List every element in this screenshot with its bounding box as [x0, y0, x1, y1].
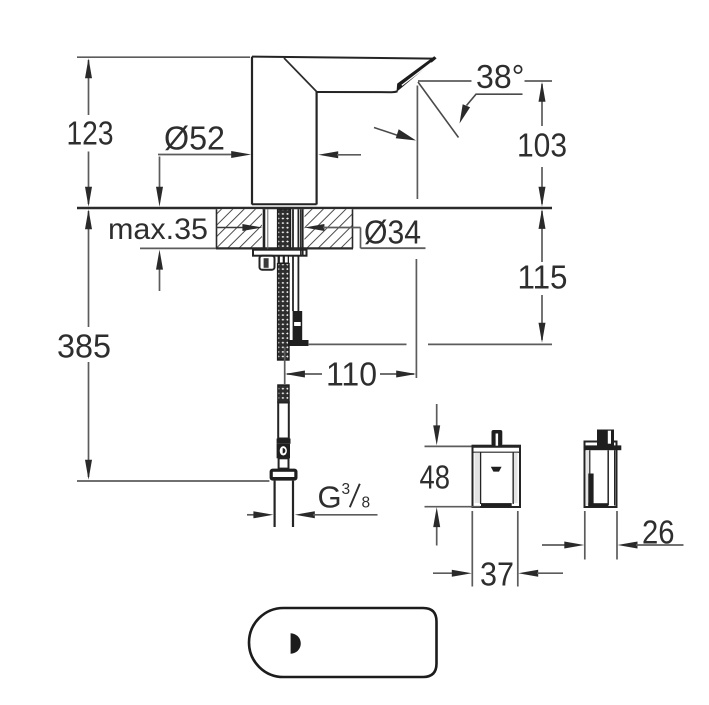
38° arc leader with arrow [467, 94, 523, 105]
dimension Ø34 arrows [216, 227, 244, 229]
dimension 123 line [88, 60, 90, 115]
side box clip [597, 430, 614, 446]
connection nut G3/8 [270, 469, 298, 481]
spout face angle extension line [418, 82, 459, 138]
dimension 48 [425, 445, 472, 447]
sensor cable lines through shank [292, 209, 294, 311]
faucet base bottom edge [252, 203, 317, 205]
svg-text:8: 8 [362, 495, 371, 512]
svg-text:48: 48 [420, 459, 451, 496]
faucet body top edge [252, 57, 434, 59]
svg-text:26: 26 [642, 514, 675, 551]
hose connector body [277, 444, 290, 459]
counter slab left edge [216, 209, 218, 248]
svg-text:385: 385 [57, 328, 111, 365]
dimension Ø52 leader [158, 154, 232, 156]
counter slab bottom edge [216, 247, 353, 249]
hose end tube [278, 403, 289, 439]
dimension 103 line [541, 84, 543, 126]
side box cap band [585, 445, 622, 450]
counter slab right edge [352, 209, 354, 248]
dimension Ø52 right arrow [318, 151, 338, 158]
hose crimp fitting [278, 256, 289, 264]
box bottom dark band [481, 503, 512, 506]
box cap band [473, 445, 521, 448]
svg-text:max.35: max.35 [108, 213, 208, 246]
dimension 385 line [88, 211, 90, 327]
connector lower body [279, 458, 289, 468]
svg-text:Ø52: Ø52 [164, 120, 225, 157]
spout tip blade (aerator face) [397, 56, 437, 92]
control box front view [473, 446, 521, 507]
wire: extension line top (faucet top level) [77, 56, 250, 58]
box front sensor dash [491, 467, 502, 472]
svg-text:3: 3 [342, 481, 351, 498]
control box side view [585, 442, 617, 508]
threaded rod (textured) [278, 209, 291, 250]
faucet body left edge [251, 57, 253, 205]
dimension 110 [284, 347, 286, 385]
spout outlet extension line upper [416, 86, 418, 200]
spout underside [317, 91, 398, 92]
side box inner verticals [607, 450, 609, 505]
flow direction arrow at spout outlet [374, 128, 398, 136]
svg-text:38°: 38° [476, 58, 525, 95]
svg-text:Ø34: Ø34 [364, 214, 421, 251]
box top nipple [492, 430, 503, 446]
dimension 37 [471, 511, 473, 587]
tube collar dark band [277, 439, 291, 444]
box side shading [475, 453, 481, 503]
spout outlet extension line lower [415, 259, 417, 378]
side box bottom band [588, 503, 608, 507]
sensor cable jack connector [293, 311, 303, 340]
wire: 38 degree reference line [418, 80, 472, 82]
faucet column front edge [316, 92, 318, 205]
dimension G3/8 arrows [247, 514, 255, 516]
shank left edge [263, 209, 266, 249]
escutcheon plate top view (pill shape) [249, 608, 437, 677]
securing nut inner dark band [264, 258, 269, 268]
wire: 385 bottom reference line [77, 480, 269, 482]
Ø34 leader step [360, 228, 362, 249]
mounting surface line [77, 207, 552, 209]
svg-text:37: 37 [480, 556, 514, 593]
svg-text:110: 110 [326, 356, 377, 393]
counter slab hatched left part [217, 209, 263, 248]
connector window [280, 446, 287, 455]
supply pipe below [274, 481, 276, 527]
faucet interior chamfer edge [284, 58, 317, 92]
jack connector base plate [288, 340, 309, 346]
side box left shading [586, 450, 589, 505]
wire: max.35 lower extension line [140, 247, 216, 249]
svg-text:115: 115 [518, 259, 568, 296]
braided hose lower section [278, 385, 289, 403]
counter slab hatched right part [305, 209, 353, 248]
side box dark bar [588, 474, 593, 507]
cable conduit lines crossing flange [300, 209, 302, 256]
svg-text:123: 123 [67, 114, 114, 151]
svg-text:G: G [318, 480, 342, 515]
mounting flange under counter [253, 250, 307, 256]
dimension max.35 arrows [159, 157, 161, 189]
sensor window mark on plate [291, 633, 301, 653]
dimension 26 [584, 511, 586, 560]
shank inner left line [267, 209, 269, 249]
braided supply hose upper section [278, 264, 289, 361]
wire: 115 bottom extension line [308, 343, 407, 345]
svg-text:103: 103 [517, 126, 567, 163]
securing nut [260, 256, 275, 270]
dimension 115 line [541, 211, 543, 262]
